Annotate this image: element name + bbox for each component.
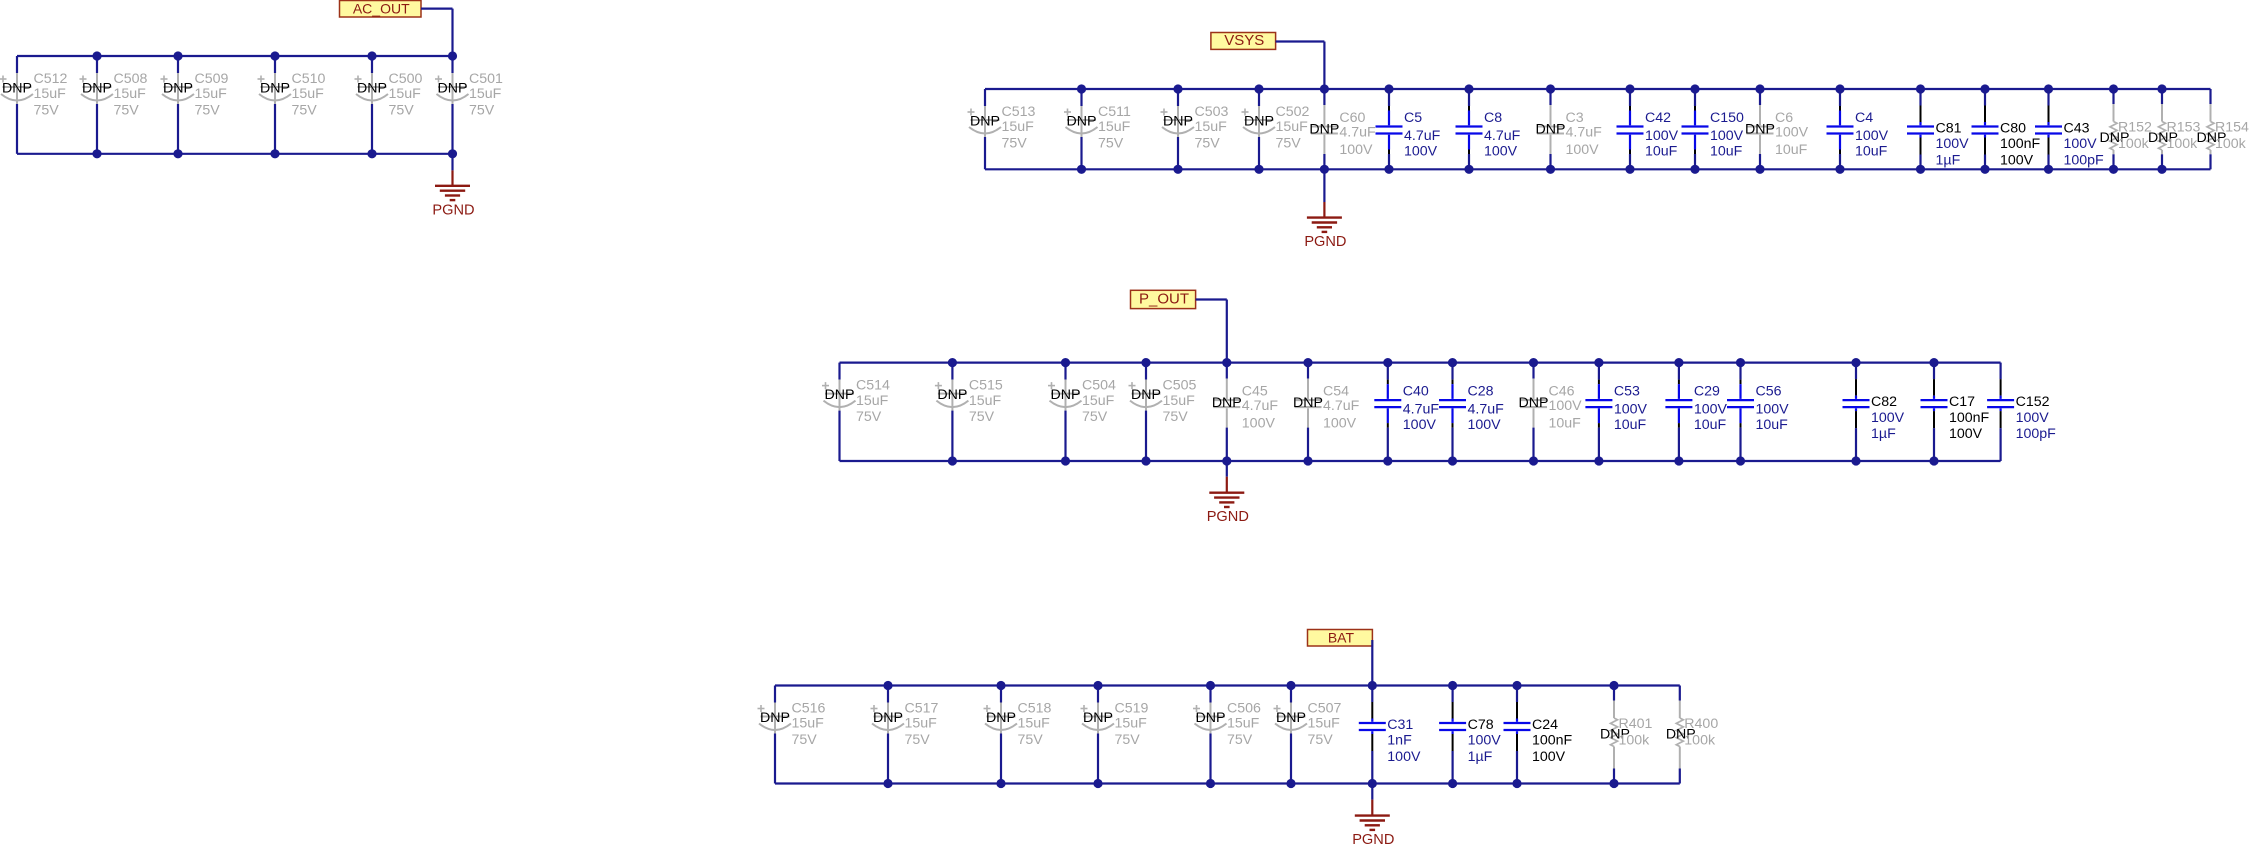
svg-text:10uF: 10uF <box>1855 144 1888 160</box>
svg-text:C516: C516 <box>792 700 826 716</box>
svg-text:DNP: DNP <box>1163 114 1193 130</box>
junction <box>1674 456 1683 465</box>
capacitor C56 <box>1727 363 1789 461</box>
capacitor C513 (DNP polarized) <box>968 89 1036 169</box>
svg-text:100V: 100V <box>1242 416 1276 432</box>
svg-text:DNP: DNP <box>1244 114 1274 130</box>
svg-text:15uF: 15uF <box>1308 716 1341 732</box>
junction <box>1546 165 1555 174</box>
svg-text:15uF: 15uF <box>1018 716 1051 732</box>
junction <box>92 51 101 60</box>
svg-text:C31: C31 <box>1387 717 1413 733</box>
capacitor C45 (DNP) <box>1212 363 1279 461</box>
junction <box>448 149 457 158</box>
junction <box>1141 358 1150 367</box>
junction <box>1254 84 1263 93</box>
svg-text:C512: C512 <box>34 71 68 87</box>
svg-text:C518: C518 <box>1018 700 1052 716</box>
svg-text:DNP: DNP <box>1519 395 1549 411</box>
junction <box>1594 456 1603 465</box>
svg-text:15uF: 15uF <box>905 716 938 732</box>
junction <box>2044 165 2053 174</box>
svg-text:C506: C506 <box>1227 700 1261 716</box>
resistor R154 (DNP) <box>2197 89 2250 169</box>
svg-text:75V: 75V <box>1115 732 1141 748</box>
svg-text:C500: C500 <box>389 71 423 87</box>
capacitor C28 <box>1439 363 1504 461</box>
junction <box>2109 84 2118 93</box>
svg-text:C502: C502 <box>1276 104 1310 120</box>
svg-text:DNP: DNP <box>1309 122 1339 138</box>
svg-text:75V: 75V <box>389 102 415 118</box>
svg-text:PGND: PGND <box>1207 509 1249 525</box>
junction <box>996 779 1005 788</box>
wire <box>17 153 453 155</box>
capacitor C507 (DNP polarized) <box>1274 686 1342 784</box>
resistor R400 (DNP) <box>1666 686 1719 784</box>
junction <box>1448 681 1457 690</box>
capacitor C17 <box>1921 363 1990 461</box>
junction <box>1286 779 1295 788</box>
junction <box>2157 165 2166 174</box>
svg-text:75V: 75V <box>1163 409 1189 425</box>
junction <box>948 358 957 367</box>
svg-text:15uF: 15uF <box>1098 119 1131 135</box>
svg-text:4.7uF: 4.7uF <box>1339 125 1376 141</box>
capacitor C508 (DNP polarized) <box>80 56 148 154</box>
svg-text:100nF: 100nF <box>2000 136 2041 152</box>
junction <box>448 51 457 60</box>
capacitor C506 (DNP polarized) <box>1193 686 1261 784</box>
wire <box>985 168 2211 170</box>
svg-text:4.7uF: 4.7uF <box>1242 398 1279 414</box>
svg-text:C503: C503 <box>1195 104 1229 120</box>
svg-text:C4: C4 <box>1855 110 1873 126</box>
svg-text:C42: C42 <box>1645 110 1671 126</box>
ground PGND <box>1207 461 1249 525</box>
svg-text:C513: C513 <box>1002 104 1036 120</box>
wire <box>775 684 1680 686</box>
capacitor C511 (DNP polarized) <box>1064 89 1131 169</box>
capacitor C43 <box>2035 89 2104 169</box>
wire <box>451 9 453 56</box>
svg-text:DNP: DNP <box>1051 387 1081 403</box>
junction <box>1093 681 1102 690</box>
svg-text:C24: C24 <box>1532 717 1558 733</box>
svg-text:15uF: 15uF <box>469 86 502 102</box>
svg-text:PGND: PGND <box>1304 234 1346 250</box>
junction <box>1625 84 1634 93</box>
junction <box>1368 779 1377 788</box>
svg-text:R154: R154 <box>2215 120 2249 136</box>
svg-text:AC_OUT: AC_OUT <box>353 0 410 16</box>
svg-text:C508: C508 <box>114 71 148 87</box>
junction <box>2157 84 2166 93</box>
svg-text:DNP: DNP <box>1131 387 1161 403</box>
junction <box>92 149 101 158</box>
svg-text:1nF: 1nF <box>1387 733 1412 749</box>
svg-text:4.7uF: 4.7uF <box>1403 402 1440 418</box>
wire <box>1196 298 1227 300</box>
capacitor C519 (DNP polarized) <box>1081 686 1149 784</box>
junction <box>1512 779 1521 788</box>
svg-text:100V: 100V <box>2016 410 2050 426</box>
junction <box>1141 456 1150 465</box>
svg-text:10uF: 10uF <box>1549 416 1582 432</box>
junction <box>1077 84 1086 93</box>
svg-text:DNP: DNP <box>937 387 967 403</box>
svg-text:75V: 75V <box>1002 135 1028 151</box>
svg-text:C505: C505 <box>1163 377 1197 393</box>
svg-text:15uF: 15uF <box>292 86 325 102</box>
svg-text:10uF: 10uF <box>1645 144 1678 160</box>
junction <box>1383 358 1392 367</box>
svg-text:DNP: DNP <box>1536 122 1566 138</box>
junction <box>1320 84 1329 93</box>
svg-text:VSYS: VSYS <box>1224 32 1264 49</box>
capacitor C42 <box>1617 89 1679 169</box>
capacitor C503 (DNP polarized) <box>1161 89 1229 169</box>
svg-text:C40: C40 <box>1403 384 1429 400</box>
svg-text:100V: 100V <box>1855 128 1889 144</box>
svg-text:15uF: 15uF <box>195 86 228 102</box>
svg-text:1µF: 1µF <box>1936 152 1961 168</box>
resistor R153 (DNP) <box>2148 89 2201 169</box>
junction <box>1303 456 1312 465</box>
capacitor C78 <box>1439 686 1501 784</box>
svg-text:C501: C501 <box>469 71 503 87</box>
junction <box>1383 456 1392 465</box>
wire <box>985 88 2211 90</box>
junction <box>1173 84 1182 93</box>
capacitor C40 <box>1374 363 1439 461</box>
junction <box>367 149 376 158</box>
svg-text:DNP: DNP <box>1212 395 1242 411</box>
resistor R401 (DNP) <box>1600 686 1653 784</box>
svg-text:DNP: DNP <box>1293 395 1323 411</box>
svg-text:C519: C519 <box>1115 700 1149 716</box>
svg-text:75V: 75V <box>1308 732 1334 748</box>
svg-text:100V: 100V <box>1323 416 1357 432</box>
junction <box>270 51 279 60</box>
svg-text:DNP: DNP <box>438 81 468 97</box>
svg-text:C517: C517 <box>905 700 939 716</box>
svg-text:100pF: 100pF <box>2016 426 2057 442</box>
svg-text:DNP: DNP <box>357 81 387 97</box>
junction <box>1625 165 1634 174</box>
junction <box>1594 358 1603 367</box>
svg-text:100V: 100V <box>1403 417 1437 433</box>
net label P_OUT <box>1131 290 1196 308</box>
svg-text:C510: C510 <box>292 71 326 87</box>
junction <box>1835 84 1844 93</box>
junction <box>1529 358 1538 367</box>
svg-text:75V: 75V <box>114 102 140 118</box>
capacitor C6 (DNP) <box>1745 89 1809 169</box>
svg-text:100k: 100k <box>2215 136 2247 152</box>
svg-text:75V: 75V <box>969 409 995 425</box>
svg-text:4.7uF: 4.7uF <box>1404 128 1441 144</box>
resistor R152 (DNP) <box>2100 89 2153 169</box>
svg-text:C515: C515 <box>969 377 1003 393</box>
net label BAT <box>1308 629 1373 646</box>
svg-text:C507: C507 <box>1308 700 1342 716</box>
svg-text:15uF: 15uF <box>1163 393 1196 409</box>
capacitor C54 (DNP) <box>1293 363 1360 461</box>
capacitor C518 (DNP polarized) <box>984 686 1052 784</box>
svg-text:100V: 100V <box>1549 398 1583 414</box>
svg-text:C504: C504 <box>1082 377 1116 393</box>
svg-text:75V: 75V <box>34 102 60 118</box>
svg-text:100V: 100V <box>1484 144 1518 160</box>
junction <box>2109 165 2118 174</box>
junction <box>1512 681 1521 690</box>
wire <box>775 782 1680 784</box>
svg-text:100V: 100V <box>1468 417 1502 433</box>
svg-text:100pF: 100pF <box>2064 152 2105 168</box>
capacitor C500 (DNP polarized) <box>355 56 423 154</box>
capacitor C82 <box>1843 363 1905 461</box>
capacitor C509 (DNP polarized) <box>161 56 229 154</box>
capacitor C81 <box>1907 89 1969 169</box>
svg-text:BAT: BAT <box>1328 629 1355 645</box>
svg-text:4.7uF: 4.7uF <box>1484 128 1521 144</box>
wire <box>17 55 453 57</box>
svg-text:R152: R152 <box>2118 120 2152 136</box>
svg-text:100V: 100V <box>1710 128 1744 144</box>
junction <box>1464 84 1473 93</box>
svg-text:15uF: 15uF <box>389 86 422 102</box>
svg-text:C152: C152 <box>2016 394 2050 410</box>
capacitor C510 (DNP polarized) <box>258 56 326 154</box>
svg-text:100V: 100V <box>1936 136 1970 152</box>
svg-text:C56: C56 <box>1756 384 1782 400</box>
svg-text:75V: 75V <box>905 732 931 748</box>
capacitor C515 (DNP polarized) <box>935 363 1003 461</box>
junction <box>1384 165 1393 174</box>
svg-text:C8: C8 <box>1484 110 1502 126</box>
svg-text:75V: 75V <box>469 102 495 118</box>
svg-text:4.7uF: 4.7uF <box>1323 398 1360 414</box>
svg-text:100V: 100V <box>1756 402 1790 418</box>
capacitor C517 (DNP polarized) <box>871 686 939 784</box>
svg-text:100V: 100V <box>1614 402 1648 418</box>
net label AC_OUT <box>340 0 422 17</box>
capacitor C516 (DNP polarized) <box>758 686 826 784</box>
capacitor C3 (DNP) <box>1536 89 1603 169</box>
svg-text:C511: C511 <box>1098 104 1131 120</box>
svg-text:15uF: 15uF <box>114 86 147 102</box>
junction <box>1448 779 1457 788</box>
junction <box>1077 165 1086 174</box>
junction <box>2044 84 2053 93</box>
svg-text:100V: 100V <box>1404 144 1438 160</box>
svg-text:75V: 75V <box>1276 135 1302 151</box>
junction <box>948 456 957 465</box>
capacitor C501 (DNP polarized) <box>435 56 503 154</box>
svg-text:75V: 75V <box>1098 135 1124 151</box>
svg-text:100V: 100V <box>2064 136 2098 152</box>
wire <box>840 460 2001 462</box>
junction <box>270 149 279 158</box>
ground PGND <box>1304 169 1346 250</box>
svg-text:R400: R400 <box>1684 716 1718 732</box>
junction <box>1609 681 1618 690</box>
junction <box>1929 358 1938 367</box>
junction <box>1690 165 1699 174</box>
junction <box>1980 84 1989 93</box>
svg-text:15uF: 15uF <box>1002 119 1035 135</box>
svg-text:75V: 75V <box>856 409 882 425</box>
capacitor C505 (DNP polarized) <box>1129 363 1197 461</box>
svg-text:100k: 100k <box>1619 733 1651 749</box>
capacitor C150 <box>1682 89 1745 169</box>
svg-text:75V: 75V <box>292 102 318 118</box>
wire <box>1371 640 1373 686</box>
junction <box>1222 456 1231 465</box>
junction <box>1206 681 1215 690</box>
junction <box>1755 84 1764 93</box>
svg-text:100V: 100V <box>1645 128 1679 144</box>
junction <box>1448 456 1457 465</box>
junction <box>1736 456 1745 465</box>
svg-text:15uF: 15uF <box>1195 119 1228 135</box>
junction <box>1061 358 1070 367</box>
junction <box>883 779 892 788</box>
junction <box>1736 358 1745 367</box>
capacitor C8 <box>1456 89 1521 169</box>
svg-text:75V: 75V <box>792 732 818 748</box>
svg-text:4.7uF: 4.7uF <box>1468 402 1505 418</box>
svg-text:PGND: PGND <box>432 202 474 218</box>
junction <box>1851 358 1860 367</box>
svg-text:C29: C29 <box>1694 384 1720 400</box>
junction <box>1222 358 1231 367</box>
junction <box>1286 681 1295 690</box>
junction <box>1674 358 1683 367</box>
junction <box>996 681 1005 690</box>
junction <box>1690 84 1699 93</box>
svg-text:10uF: 10uF <box>1694 417 1727 433</box>
svg-text:15uF: 15uF <box>1227 716 1260 732</box>
svg-text:100V: 100V <box>1871 410 1905 426</box>
svg-text:DNP: DNP <box>1745 122 1775 138</box>
capacitor C504 (DNP polarized) <box>1048 363 1116 461</box>
svg-text:75V: 75V <box>1227 732 1253 748</box>
svg-text:C150: C150 <box>1710 110 1744 126</box>
junction <box>173 149 182 158</box>
svg-text:100V: 100V <box>1694 402 1728 418</box>
ground PGND <box>432 154 474 219</box>
capacitor C5 <box>1376 89 1441 169</box>
svg-text:C78: C78 <box>1468 717 1494 733</box>
net label VSYS <box>1211 32 1276 49</box>
svg-text:10uF: 10uF <box>1710 144 1743 160</box>
junction <box>1061 456 1070 465</box>
svg-text:C5: C5 <box>1404 110 1422 126</box>
svg-text:15uF: 15uF <box>969 393 1002 409</box>
svg-text:P_OUT: P_OUT <box>1139 290 1189 307</box>
junction <box>1609 779 1618 788</box>
capacitor C502 (DNP polarized) <box>1242 89 1310 169</box>
svg-text:75V: 75V <box>195 102 221 118</box>
svg-text:15uF: 15uF <box>34 86 67 102</box>
capacitor C60 (DNP) <box>1309 89 1376 169</box>
svg-text:DNP: DNP <box>825 387 855 403</box>
svg-text:100V: 100V <box>1949 426 1983 442</box>
svg-text:100V: 100V <box>1339 142 1373 158</box>
capacitor C24 <box>1504 686 1573 784</box>
wire <box>421 8 453 10</box>
junction <box>1835 165 1844 174</box>
capacitor C152 <box>1987 363 2056 461</box>
junction <box>1303 358 1312 367</box>
svg-text:100V: 100V <box>2000 152 2034 168</box>
svg-text:C82: C82 <box>1871 394 1897 410</box>
svg-text:DNP: DNP <box>760 710 790 726</box>
svg-text:100nF: 100nF <box>1949 410 1990 426</box>
svg-text:DNP: DNP <box>2 81 32 97</box>
svg-text:DNP: DNP <box>260 81 290 97</box>
svg-text:DNP: DNP <box>1276 710 1306 726</box>
svg-text:R153: R153 <box>2167 120 2201 136</box>
svg-text:100nF: 100nF <box>1532 733 1573 749</box>
svg-text:15uF: 15uF <box>792 716 825 732</box>
junction <box>1851 456 1860 465</box>
svg-text:PGND: PGND <box>1352 832 1394 845</box>
junction <box>367 51 376 60</box>
junction <box>1464 165 1473 174</box>
junction <box>1384 84 1393 93</box>
svg-text:1µF: 1µF <box>1468 749 1493 765</box>
svg-text:15uF: 15uF <box>1276 119 1309 135</box>
svg-text:C81: C81 <box>1936 120 1962 136</box>
junction <box>1093 779 1102 788</box>
junction <box>1546 84 1555 93</box>
svg-text:C28: C28 <box>1468 384 1494 400</box>
capacitor C512 (DNP polarized) <box>0 56 68 154</box>
capacitor C53 <box>1585 363 1647 461</box>
svg-text:10uF: 10uF <box>1756 417 1789 433</box>
junction <box>1173 165 1182 174</box>
svg-text:100V: 100V <box>1532 749 1566 765</box>
svg-text:C43: C43 <box>2064 120 2090 136</box>
junction <box>1448 358 1457 367</box>
svg-text:DNP: DNP <box>873 710 903 726</box>
capacitor C29 <box>1665 363 1727 461</box>
svg-text:10uF: 10uF <box>1614 417 1647 433</box>
svg-text:75V: 75V <box>1082 409 1108 425</box>
junction <box>1929 456 1938 465</box>
svg-text:DNP: DNP <box>1083 710 1113 726</box>
ground PGND <box>1352 784 1394 845</box>
junction <box>173 51 182 60</box>
wire <box>840 362 2001 364</box>
svg-text:C17: C17 <box>1949 394 1975 410</box>
junction <box>1320 165 1329 174</box>
svg-text:100k: 100k <box>1684 733 1716 749</box>
svg-text:C80: C80 <box>2000 120 2026 136</box>
svg-text:100V: 100V <box>1387 749 1421 765</box>
junction <box>1980 165 1989 174</box>
svg-text:100k: 100k <box>2167 136 2199 152</box>
svg-text:10uF: 10uF <box>1775 142 1808 158</box>
junction <box>1254 165 1263 174</box>
svg-text:C514: C514 <box>856 377 890 393</box>
svg-text:100V: 100V <box>1468 733 1502 749</box>
svg-text:DNP: DNP <box>1196 710 1226 726</box>
junction <box>1206 779 1215 788</box>
